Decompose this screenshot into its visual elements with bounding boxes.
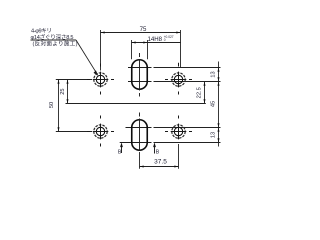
dim 75 extension line right [180,30,182,67]
feature line slot-arc row2 y=81.5 [128,81,152,83]
dim 50 dimension line [58,80,60,132]
dim 25 dimension line [67,80,69,104]
dim 25 arrow top [67,80,69,84]
section arrow B left shaft [121,144,123,153]
feature extension row3 to right dims [154,127,221,129]
slot bottom vertical centerline [139,113,141,151]
hole BL counterbore outer dashed circle [94,125,107,138]
slot top (obround 14H8) [132,60,148,90]
dim 14H8 extension line right [147,40,149,59]
dim 14H8 arrow left [132,42,136,44]
dim 37.5 arrow left [140,166,144,168]
leader arrowhead [94,70,99,75]
svg-text:4-φ9キリ: 4-φ9キリ [31,29,52,35]
svg-text:50: 50 [49,102,55,108]
dim 22.5 arrow bottom [204,99,206,103]
hole BL centerlines [87,116,114,147]
hole TL inner circle [96,75,104,83]
svg-text:37.5: 37.5 [154,158,167,165]
svg-text:B: B [118,150,122,156]
dim 75 extension line left [100,30,102,71]
dim 37.5 dimension line [140,166,179,168]
dim 13 top arrow up [218,68,220,72]
hole BR centerlines [165,116,192,140]
right stacked dimension line x=217.8 [218,62,220,147]
section arrow B right head [153,142,156,147]
dim 25 arrow bottom [67,99,69,103]
hole TR centerlines [165,63,192,95]
svg-text:45: 45 [210,101,216,107]
hole TR counterbore outer dashed circle [172,73,185,86]
svg-text:13: 13 [210,71,216,77]
dim 22.5 arrow top [204,82,206,86]
dim 37.5 extension line left (from slot center) [139,152,141,169]
svg-text:(反対面より施工): (反対面より施工) [33,40,78,48]
dim 13 bottom arrow down [218,138,220,142]
svg-text:22.5: 22.5 [197,87,203,98]
dim 22.5 dimension line [204,82,206,104]
hole BL inner circle [96,127,104,135]
dim 75 arrow left [101,32,105,34]
hole BR counterbore outer dashed circle [172,125,185,138]
feature line slot-arc row3 y=127.5 [126,127,152,129]
feature extension row4 to right dims [154,142,221,144]
dim 75 arrow right [176,32,180,34]
dim 14H8 arrow right [143,42,147,44]
slot top vertical centerline [139,53,141,97]
svg-text:0: 0 [164,38,166,42]
feature extension row1 to right dims [154,67,221,69]
hole TL centerlines [87,64,114,95]
dim 37.5 extension line right (from hole BR) [178,144,180,169]
dim 50 extension line bottom [56,131,92,133]
section arrow B left head [120,142,123,147]
dim 14H8 dimension line [132,42,182,44]
svg-text:75: 75 [140,26,147,33]
hole TL counterbore outer dashed circle [94,73,107,86]
slot bottom (obround 14H8) [132,120,148,151]
mid extension line y=104 [66,103,206,105]
leader line to hole [76,40,97,73]
svg-text:14H8: 14H8 [148,36,163,43]
dim 37.5 arrow right [174,166,178,168]
feature extension row2 to right dims [154,81,221,83]
dim 13 top arrow down / 45 arrow up [218,77,220,81]
dim 45 arrow down / 13 bottom arrow up [218,123,220,127]
svg-text:25: 25 [60,88,66,94]
dim 50 arrow bottom [58,127,60,131]
svg-text:13: 13 [210,132,216,138]
section arrow B right shaft [154,144,156,154]
hole TR inner circle [174,75,182,83]
note underline [31,39,77,41]
dim 14H8 extension line left [131,40,133,59]
svg-text:B: B [156,150,160,156]
dim 75 dimension line [101,32,181,34]
hole BR inner circle [174,127,182,135]
feature line slot-arc row1 y=67.5 [128,67,152,69]
feature line slot-arc row4 y=142 [120,142,152,144]
dim 50 extension line top [56,79,92,81]
dim 50 arrow top [58,80,60,84]
